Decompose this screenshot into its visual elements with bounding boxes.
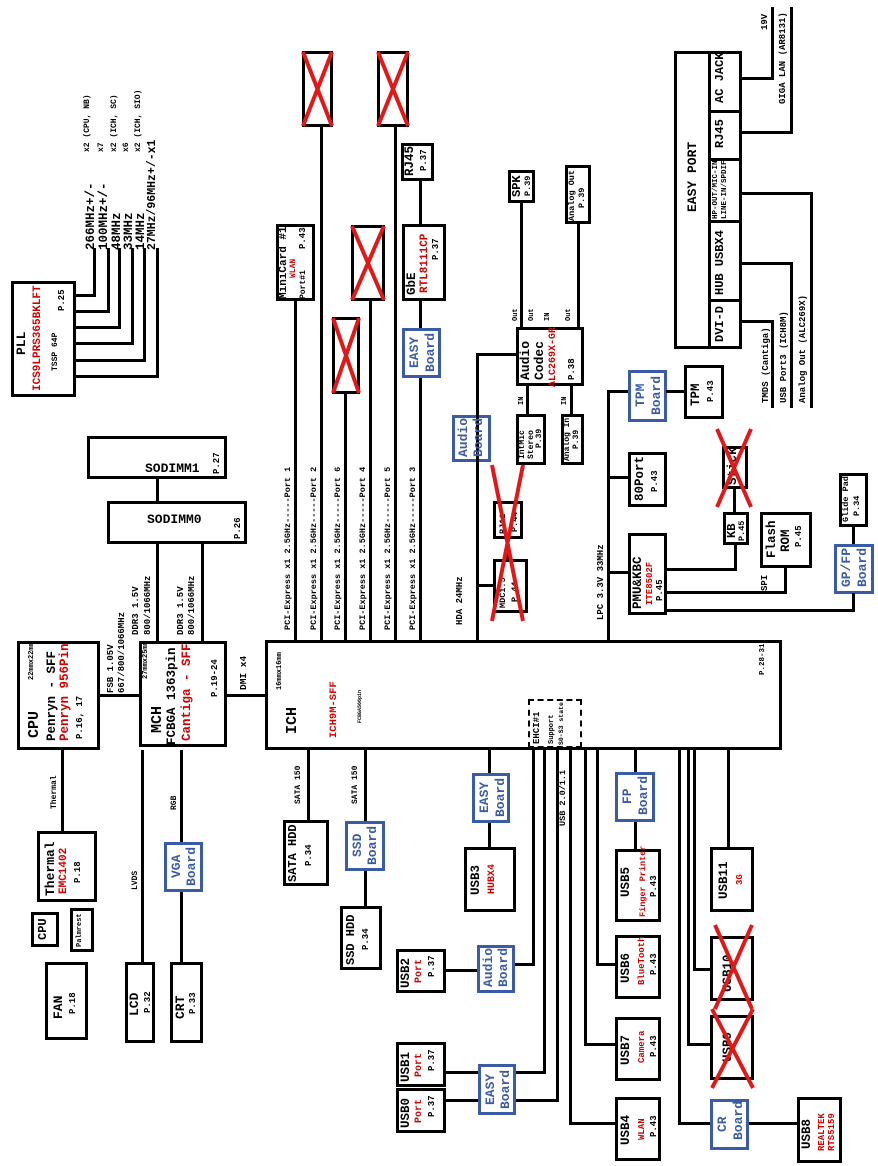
wire SPI h — [784, 567, 787, 594]
wire SSDBoard-SSDHDD — [364, 871, 367, 907]
net SATA 150 a — [295, 766, 303, 804]
net RGB — [171, 796, 179, 810]
wire SATA1 — [307, 750, 310, 820]
Audio Board (USB2) — [477, 945, 515, 993]
wire clock1 v — [76, 294, 96, 297]
EASY PORT box — [674, 51, 742, 349]
net SPI — [761, 575, 770, 591]
label USB7 — [620, 1035, 633, 1065]
FAN box — [45, 962, 88, 1040]
label ITE8502F — [646, 562, 655, 605]
net PCIe Port 5 — [384, 467, 393, 630]
label VGA Board1 — [170, 855, 183, 878]
label EASY Board3b — [494, 778, 507, 817]
USB4 box — [615, 1097, 661, 1161]
wire RJ11-MDC — [506, 539, 509, 561]
label HP-OUT/MIC-IN — [713, 160, 721, 219]
wire USBPort3 v — [742, 262, 792, 265]
wire USB3 a — [488, 750, 491, 773]
label P.37 gbe — [432, 238, 441, 260]
wire PCIe port5 — [394, 127, 397, 640]
label P.39 spk — [524, 176, 533, 196]
label P.18 fan — [69, 992, 78, 1014]
label P.43 tpm — [707, 380, 716, 402]
wire USB10 h — [693, 750, 696, 971]
wire PCIe port6 — [344, 394, 347, 640]
label P.45 flash — [795, 525, 804, 547]
label Penryn - SFF — [46, 651, 59, 741]
wire USB6 v — [596, 963, 615, 966]
label TPM Board2 — [650, 376, 663, 415]
USB9 box (deleted) — [710, 1015, 754, 1080]
net TMDS (Cantiga) — [762, 327, 771, 403]
label MCH — [150, 706, 165, 733]
wire LPC bus — [607, 390, 610, 640]
Audio Board (HDA) — [452, 415, 491, 462]
label MiniCard #1 — [279, 226, 290, 299]
net 800/1066MHz ch0 — [144, 576, 153, 635]
LCD box — [125, 962, 155, 1043]
wire clock5 v — [76, 359, 146, 362]
wire Codec-SPK — [520, 202, 523, 327]
label ROM — [780, 529, 793, 552]
label CRT — [174, 996, 187, 1019]
label Analog In — [564, 418, 572, 461]
wire SODIMM0-SODIMM1 — [156, 476, 159, 501]
EASY Board (GbE) — [402, 328, 441, 378]
wire USB0 v2 — [446, 1099, 478, 1102]
FP Board — [615, 772, 655, 822]
label AC JACK — [714, 53, 726, 103]
label Glide Pad — [842, 476, 851, 522]
label LINE-IN/SPDIF — [722, 160, 730, 219]
label P.27 — [213, 452, 222, 474]
deleted box B (PCIe port5) — [377, 51, 409, 127]
wire clock4 v — [76, 342, 134, 345]
RJ11 box (deleted) — [493, 501, 523, 539]
deleted box A (PCIe port2) — [302, 51, 333, 127]
wire USB9 h — [687, 750, 690, 1046]
label HUB USBX4 — [714, 230, 726, 295]
GbE RTL8111CP box — [402, 224, 446, 301]
EASY PORT divider v4 — [708, 110, 742, 113]
label P.44 rj11 — [511, 512, 520, 532]
label 22mmx22mm — [29, 642, 36, 680]
label Camera — [638, 1031, 647, 1063]
net 667/800/1066MHz — [118, 612, 127, 693]
net x6 — [123, 142, 131, 152]
EASY PORT divider v1 — [708, 299, 742, 302]
label Audio Board2b — [497, 948, 510, 987]
label USB10 — [722, 954, 735, 992]
wire USB2 v1 — [515, 963, 535, 966]
label RJ45 easyport — [714, 119, 726, 148]
label MDC1.5 — [499, 577, 508, 608]
label USB0 — [400, 1098, 413, 1128]
label EASY Board01a — [484, 1074, 497, 1105]
label TPM Board1 — [634, 384, 647, 407]
label SSD Board1 — [351, 834, 364, 857]
wire LVDS — [141, 750, 144, 962]
wire PCIe port4 — [369, 301, 372, 640]
wire LPC-PMU — [607, 571, 628, 574]
wire USB3 b — [488, 823, 491, 848]
TPM Board — [628, 370, 667, 422]
wire USB4 h — [569, 750, 572, 1125]
wire USB9 v — [687, 1043, 710, 1046]
pin Out3 — [566, 308, 573, 321]
wire PMU-GPFP v — [666, 609, 855, 612]
wire USB1 v2 — [446, 1071, 478, 1074]
wire RGB VGA-CRT — [180, 892, 183, 962]
label BlueTooth — [638, 936, 647, 985]
wire USBPort3 h — [790, 262, 793, 408]
net x7 — [98, 142, 106, 152]
label P.25 — [58, 289, 67, 311]
wire Codec-IntMic — [526, 385, 529, 414]
USB10 box (deleted) — [710, 936, 754, 1001]
TPM box — [684, 365, 724, 419]
label CR Board2 — [732, 1101, 745, 1140]
delete X USB10 — [715, 925, 752, 1009]
USB3 box — [464, 847, 516, 912]
wire GbE-RJ45 — [419, 181, 422, 226]
label Analog Out — [568, 170, 577, 221]
wire CR v1 — [678, 1122, 710, 1125]
80Port box — [628, 452, 667, 507]
wire Thermal — [61, 750, 64, 832]
wire SATA2 — [364, 750, 367, 821]
net PCIe Port 4 — [359, 467, 368, 630]
wire clock5 h 14MHz — [143, 248, 146, 362]
label LCD — [128, 993, 141, 1016]
Analog Out box — [565, 165, 591, 224]
label RTL8111CP — [420, 234, 431, 293]
label Flash — [766, 520, 779, 558]
wire USB11 h — [727, 750, 730, 847]
label FAN — [52, 996, 65, 1019]
label USB9 — [722, 1032, 735, 1062]
Flash ROM box — [760, 512, 812, 568]
wire DDR3 ch1 — [201, 541, 204, 641]
wire PMU-GPFP h — [852, 593, 855, 612]
wire HDA-MDC — [479, 584, 493, 587]
label Stereo — [528, 430, 536, 459]
label P.37 usb1 — [428, 1049, 437, 1071]
net 33MHz — [123, 212, 136, 250]
net LVDS — [132, 871, 140, 890]
deleted box C (PCIe port4) — [351, 225, 385, 301]
wire USB2 h — [532, 750, 535, 966]
EASY Board (USB0/USB1) — [478, 1064, 516, 1115]
label Audio BoardHa — [457, 418, 470, 457]
label 3G — [736, 874, 745, 885]
wire 19V v — [742, 77, 773, 80]
label WLAN minicard — [290, 259, 298, 278]
label 16mmx16mm — [277, 652, 284, 690]
wire USB6 h — [596, 750, 599, 966]
label IntMic — [519, 430, 527, 459]
label CPU small — [37, 918, 49, 940]
label ALC269X-GR — [549, 327, 559, 387]
wire PCIe port3 a — [419, 378, 422, 640]
GP/FP Board — [834, 544, 874, 594]
Stick box (deleted) — [722, 446, 748, 489]
EASY PORT divider v3 — [708, 158, 742, 161]
label Port usb1 — [415, 1053, 425, 1077]
label ICH9M-SFF — [329, 681, 340, 738]
label CPU — [27, 711, 42, 738]
net x2 ICH SIO — [135, 90, 143, 152]
wire PCIe port2 — [320, 127, 323, 640]
wire Stick-KB — [733, 489, 736, 512]
delete X box D — [333, 318, 359, 393]
label EASY Board01b — [499, 1070, 512, 1109]
wire CR h — [678, 750, 681, 1125]
USB1 box — [396, 1042, 446, 1087]
label P.28-31 — [760, 643, 768, 675]
label Cantiga - SFF — [181, 643, 194, 741]
label USB2 — [400, 958, 413, 988]
label SODIMM0 — [147, 513, 202, 526]
wire Codec-AnalogOut — [577, 223, 580, 327]
label P.43 usb5 — [650, 875, 659, 897]
net HDA 24MHz — [456, 576, 465, 625]
net FSB 1.05V — [107, 644, 116, 693]
wire FSB CPU-MCH — [100, 694, 139, 697]
label GbE — [406, 272, 419, 295]
label USB4 — [620, 1115, 633, 1145]
label P.19-24 — [211, 659, 220, 697]
wire AnalogOutNet h — [810, 192, 813, 408]
label Audio BoardHb — [472, 418, 485, 457]
wire clock2 h 100MHz — [107, 248, 110, 313]
wire GIGALAN v — [742, 131, 792, 134]
RJ45 box — [401, 143, 434, 181]
net DDR3 1.5V ch1 — [177, 586, 186, 635]
wire DDR3 ch0 — [156, 541, 159, 641]
label RTS5159 — [828, 1113, 837, 1151]
delete X box A — [303, 52, 332, 126]
wire USB5 b — [634, 822, 637, 849]
SATA HDD box — [283, 820, 329, 886]
label WLAN usb4 — [638, 1118, 647, 1140]
label Audio codec2 — [533, 341, 546, 380]
deleted box D (PCIe port6) — [332, 317, 360, 394]
PLL U_PLL ICS9LPRS365BKLFT — [11, 281, 76, 397]
wire PCIe port3 b — [419, 301, 422, 328]
label P.43 usb6 — [650, 953, 659, 975]
wire USB1 v1 — [516, 1071, 546, 1074]
label P.26 — [234, 517, 243, 539]
label FCBGA 1363pin — [166, 647, 179, 745]
net DDR3 1.5V ch0 — [132, 586, 141, 635]
label P.37 usb2 — [428, 955, 437, 977]
wire 19V h — [771, 7, 774, 80]
net PCIe Port 2 — [310, 467, 319, 630]
USB0 box — [396, 1088, 446, 1133]
wire HDA h — [476, 353, 479, 640]
label SATA HDD — [287, 824, 299, 882]
CR Board — [710, 1099, 749, 1150]
Glide Pad box — [839, 473, 868, 527]
label ICH — [285, 707, 300, 734]
net 27MHz/96MHz — [147, 140, 159, 250]
label EASY Board3a — [478, 782, 491, 813]
label Thermal title — [44, 841, 57, 896]
USB6 box — [615, 935, 661, 999]
label P.39 analogout — [578, 188, 587, 208]
label USB3 — [470, 865, 483, 895]
label 80Port — [634, 456, 647, 501]
wire PMU-KB h — [734, 544, 737, 571]
wire HDA v — [479, 353, 516, 356]
label P.34 glide — [853, 496, 862, 516]
label TSSP 64P — [52, 333, 60, 371]
wire DMI MCH-ICH — [227, 694, 265, 697]
label GP/FP Board2 — [856, 548, 869, 587]
label P.16 17 — [76, 696, 85, 739]
wire clock4 h 33MHz — [131, 248, 134, 345]
wire USB0 v1 — [516, 1099, 559, 1102]
label Audio codec1 — [519, 341, 532, 380]
net 14MHz — [135, 212, 148, 250]
ICH U_ICH ICH9M-SFF — [265, 640, 782, 750]
label PLL — [15, 332, 28, 355]
label PMU&KBC — [632, 556, 645, 609]
label VGA Board2 — [185, 847, 198, 886]
wire PCIe port1 — [294, 301, 297, 640]
label KB — [726, 524, 738, 538]
EASY PORT divider v2 — [708, 220, 742, 223]
USB5 box — [615, 849, 661, 922]
label SPK — [511, 175, 523, 197]
wire TMDS h — [771, 320, 774, 408]
label Finger Printer — [639, 846, 648, 917]
label 27mmx25mm — [143, 641, 150, 679]
label EASY PORT — [686, 142, 699, 212]
Thermal EMC1402 — [37, 831, 97, 902]
label Palmrest — [77, 913, 84, 947]
VGA Board — [164, 842, 203, 892]
label FP Board1 — [621, 788, 634, 804]
label HUBX4 — [488, 864, 498, 894]
label RJ11 — [499, 514, 508, 534]
label P.45 kb — [738, 521, 747, 541]
label FP Board2 — [637, 776, 650, 815]
wire clock6 v — [76, 375, 159, 378]
SODIMM0 connector — [107, 501, 247, 544]
label P.34 satahdd — [305, 844, 314, 866]
label P.37 rj45 — [420, 149, 429, 171]
wire GPFP-GlidePad — [852, 526, 855, 544]
label ICS9LPRS365BKLFT — [33, 285, 44, 391]
net LPC 3.3V 33MHz — [597, 544, 606, 620]
wire CR-USB8 — [749, 1122, 797, 1125]
label EHCI#1 — [533, 712, 542, 744]
net x2 CPU NB — [84, 94, 92, 152]
label P.43 minicard — [299, 227, 308, 249]
delete X box B — [378, 52, 408, 126]
SODIMM1 connector — [87, 436, 227, 479]
net PCIe Port 3 — [409, 467, 418, 630]
wire clock2 v — [76, 310, 110, 313]
IntMic Stereo box — [516, 414, 546, 465]
SSD Board — [345, 821, 385, 871]
EHCI#1 dashed box — [528, 699, 582, 748]
KB box — [723, 512, 749, 545]
label CR Board1 — [716, 1116, 729, 1132]
wire USB0 h — [556, 750, 559, 1102]
net GIGA LAN (AR8131) — [779, 12, 788, 104]
label Penryn 956Pin — [59, 643, 72, 741]
USB8 box RTS5159 — [797, 1097, 842, 1163]
label Support — [549, 715, 556, 744]
Analog In box — [561, 414, 584, 465]
wire Codec-AnalogIn — [570, 385, 573, 414]
label P.18 thermal — [74, 861, 83, 883]
wire RGB MCH-VGA — [180, 750, 183, 842]
pin Out1 — [513, 308, 520, 321]
label S0-S3 state — [559, 702, 566, 745]
net 19V — [761, 14, 770, 30]
MDC1.5 box (deleted) — [493, 559, 528, 613]
label DVI-D — [714, 306, 726, 342]
EASY PORT divider h — [708, 51, 711, 349]
USB2 box — [396, 949, 446, 993]
pin Out2 — [529, 308, 536, 321]
net PCIe Port 6 — [334, 467, 343, 630]
USB11 box — [710, 847, 754, 912]
wire USB10 v — [693, 968, 710, 971]
label FCBGA566pin — [358, 690, 363, 723]
label Stick — [727, 447, 740, 485]
label EASY BoardGb — [424, 333, 437, 372]
pin IN analogin — [562, 397, 569, 405]
label USB11 — [718, 861, 731, 899]
label P.39 analogin — [573, 430, 581, 449]
net Analog Out (ALC269X) — [799, 295, 808, 403]
net 266MHz — [85, 182, 98, 250]
CPU U_CPU Penryn — [17, 641, 100, 750]
wire USB7 h — [584, 750, 587, 1046]
label P.43 usb4 — [650, 1115, 659, 1137]
label P.44 mdc — [511, 582, 520, 602]
net DMI x4 — [239, 656, 249, 690]
delete X USB9 — [712, 1009, 753, 1088]
USB7 box — [615, 1017, 661, 1081]
wire clock3 v — [76, 326, 121, 329]
label SSD Board2 — [366, 826, 379, 865]
wire USB2 v2 — [446, 969, 477, 972]
label USB1 — [400, 1052, 413, 1082]
net 48MHz — [111, 212, 124, 250]
label TPM — [690, 383, 703, 406]
net 100MHz — [98, 182, 111, 250]
net USB Port3 (ICH8M) — [780, 311, 789, 403]
wire PMU-KB v — [666, 568, 737, 571]
wire clock3 h 48MHz — [118, 248, 121, 329]
label Port usb2 — [415, 959, 425, 983]
wire GIGALAN h — [790, 7, 793, 134]
pin IN intmic — [519, 397, 526, 405]
label Port usb0 — [415, 1099, 425, 1123]
net SATA 150 b — [352, 766, 360, 804]
delete X Stick — [717, 429, 751, 507]
label USB8 — [801, 1119, 814, 1149]
wire AnalogOutNet v — [742, 192, 812, 195]
label Audio Board2a — [482, 948, 495, 987]
